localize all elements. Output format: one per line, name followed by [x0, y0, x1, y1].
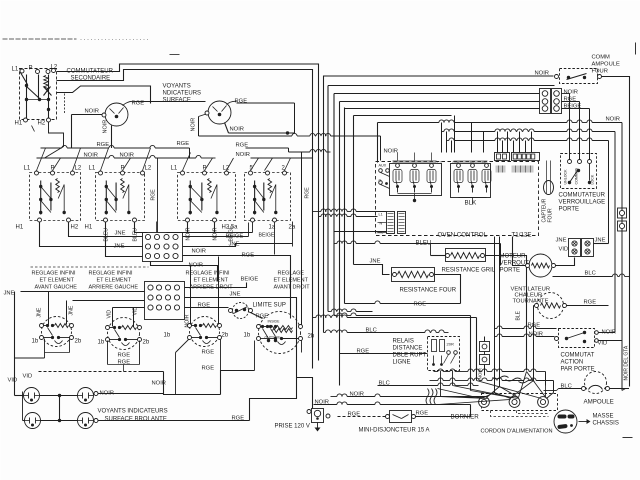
svg-text:H1: H1 — [85, 225, 93, 231]
wire s2 feeds — [113, 308, 145, 327]
svg-text:ARRIERE GAUCHE: ARRIERE GAUCHE — [89, 285, 139, 291]
svg-text:VID: VID — [23, 374, 33, 380]
svg-text:JNE: JNE — [114, 244, 125, 250]
label resistance four — [400, 288, 457, 294]
svg-text:BEIGE: BEIGE — [241, 277, 259, 283]
label noir lamp1 — [85, 109, 100, 115]
wire h380 right — [430, 378, 554, 393]
wire h315 — [334, 313, 471, 316]
svg-text:JNE: JNE — [595, 238, 606, 244]
wire hot lamp row2 — [23, 419, 250, 423]
svg-text:BLEU: BLEU — [104, 228, 110, 242]
wire gril left — [431, 244, 446, 256]
svg-text:NOIR: NOIR — [103, 120, 109, 134]
label ventilateur — [511, 287, 551, 305]
label noir rot s3 — [185, 314, 191, 327]
limit switch limite sup — [229, 303, 253, 319]
wire s3 bottom stub — [176, 339, 221, 395]
svg-text:RGE: RGE — [305, 187, 311, 199]
svg-text:VOYANTS: VOYANTS — [163, 84, 191, 90]
label jne left edge — [4, 291, 15, 297]
wire connB left mid — [73, 300, 145, 302]
svg-text:COMMUTATEUR: COMMUTATEUR — [559, 193, 606, 199]
label noir h396 — [350, 392, 365, 398]
wire noir oven lamp — [324, 76, 554, 333]
svg-text:CHASSIS: CHASSIS — [593, 421, 619, 427]
wire ampoule to right edge — [602, 77, 630, 387]
tick top right — [635, 43, 637, 55]
wire bus W3 — [57, 86, 151, 104]
wire noir h396 — [331, 394, 488, 397]
connector block noir rge beige — [540, 89, 562, 114]
wire h93 — [334, 93, 540, 95]
capteur four sensor — [542, 161, 554, 223]
label noir rot squares — [478, 367, 483, 379]
wire outlet feed — [297, 378, 313, 409]
label noir rot b3a — [186, 227, 192, 240]
svg-text:AVANT GAUCHE: AVANT GAUCHE — [35, 285, 78, 291]
svg-text:COMM: COMM — [592, 55, 611, 61]
wire bus B1 — [57, 64, 319, 361]
wire vid door right — [599, 340, 623, 342]
svg-text:H2: H2 — [38, 121, 46, 127]
label jne mid — [114, 244, 125, 250]
oven aux contacts — [379, 164, 390, 189]
wire blc h332 — [324, 330, 449, 333]
svg-text:P: P — [51, 166, 55, 172]
label 2b s4 — [308, 334, 315, 340]
wire noir bus — [37, 155, 313, 158]
label rge connB — [198, 303, 211, 309]
bus corner 347 — [344, 108, 346, 304]
label beige connB — [241, 277, 259, 283]
svg-text:2b: 2b — [75, 339, 82, 345]
label rge connA — [242, 253, 255, 259]
svg-text:RGE: RGE — [202, 350, 215, 356]
wire vid dashed — [39, 371, 164, 373]
svg-text:NOIR DEL GTA: NOIR DEL GTA — [624, 345, 630, 380]
wire disj right — [416, 405, 471, 417]
svg-text:RESISTANCE GRIL: RESISTANCE GRIL — [442, 268, 496, 274]
tick bottom right — [623, 437, 633, 439]
svg-text:L2: L2 — [75, 166, 82, 172]
svg-text:VID: VID — [8, 378, 18, 384]
wire rge door — [495, 326, 557, 329]
svg-text:BEIGE: BEIGE — [259, 233, 275, 239]
label oven control — [438, 232, 488, 239]
svg-text:L1: L1 — [379, 213, 383, 217]
wire s1 feeds — [49, 292, 67, 325]
label 2b s2 — [143, 340, 150, 346]
label reglage infini avant gauche — [32, 271, 78, 291]
svg-text:JNE: JNE — [4, 291, 15, 297]
svg-text:AUX: AUX — [379, 164, 387, 168]
svg-text:JNE: JNE — [370, 259, 381, 265]
label noir bus 1 — [84, 153, 99, 159]
resistance four — [392, 268, 435, 282]
svg-text:JNE: JNE — [69, 305, 75, 315]
svg-text:BLC: BLC — [379, 381, 390, 387]
oven relay contacts group 1 — [390, 153, 442, 196]
square connector mid 1 — [480, 337, 490, 352]
connector block A — [143, 233, 183, 262]
wire s4 bottom stub — [255, 341, 302, 371]
wire h1 block1 down — [40, 222, 143, 247]
label rge disj right — [416, 411, 429, 417]
infinite switch 3 arriere droit — [188, 317, 222, 347]
svg-text:TOURNANTE: TOURNANTE — [513, 299, 549, 305]
outlet prise 120v — [307, 409, 330, 432]
wire relay outs — [441, 371, 453, 397]
label 1b s2 — [98, 340, 105, 346]
wire moteur left — [513, 237, 526, 266]
wire noir long h136 — [199, 133, 381, 160]
bus corner 377 — [377, 123, 379, 163]
label rge s2b — [118, 360, 131, 366]
label noir 2 connA — [189, 263, 204, 269]
label vid rot s2b — [133, 307, 139, 316]
wire vert 301 — [301, 152, 303, 326]
svg-text:NDICATEURS: NDICATEURS — [163, 91, 202, 97]
surface switch block 4 avant droit — [245, 166, 296, 231]
svg-text:PORTE: PORTE — [559, 207, 580, 213]
label vid conn — [559, 247, 569, 253]
label bleu rot 1 — [104, 228, 110, 242]
moteur verrou porte — [526, 254, 556, 277]
oven transformer — [377, 212, 406, 235]
label noir bus 3 — [236, 152, 251, 158]
label rge bus 3 — [236, 143, 249, 149]
svg-text:RGE: RGE — [584, 300, 597, 306]
wire block4 drops — [176, 222, 293, 255]
oven relay contacts group 2 — [451, 160, 492, 198]
label noir vid wire — [152, 381, 167, 387]
label jne rot s1a — [37, 307, 43, 317]
label noir rot b3b — [213, 227, 219, 240]
label reglage infini arriere gauche — [89, 271, 139, 291]
hot surface lamp 3 — [25, 413, 41, 429]
wire h370 right — [434, 369, 546, 386]
label jne connB — [230, 292, 241, 298]
label t1/t2e — [512, 232, 532, 239]
svg-text:PRISE 120 V: PRISE 120 V — [275, 424, 310, 430]
svg-text:NOIR: NOIR — [230, 127, 245, 133]
label masse chassis — [593, 414, 619, 427]
label 1b s1 — [32, 339, 39, 345]
label rge bus 2 — [177, 141, 190, 147]
label noir lamp2 bottom — [230, 127, 245, 133]
svg-text:P: P — [203, 166, 207, 172]
wire vent left — [534, 306, 535, 381]
wire h85 — [328, 85, 555, 87]
wire noir door right — [599, 332, 616, 334]
surface switch block 3 arriere droit — [171, 166, 239, 231]
svg-text:LIGNE: LIGNE — [393, 360, 411, 366]
svg-text:REGLAGE INFINI: REGLAGE INFINI — [89, 271, 133, 277]
resistance gril — [446, 249, 486, 262]
svg-text:REGLAGE INFINI: REGLAGE INFINI — [186, 271, 230, 277]
wire h101 — [340, 101, 540, 103]
svg-text:NOIR: NOIR — [384, 149, 399, 155]
wire h311 — [328, 309, 373, 312]
wire plug dashes — [491, 411, 549, 417]
svg-text:MASSE: MASSE — [593, 414, 614, 420]
hot surface lamp 2 — [78, 388, 94, 404]
surface switch block 1 avant gauche — [16, 166, 82, 231]
wire jne connA — [183, 244, 293, 247]
door switch commutat action — [555, 329, 599, 348]
infinite switch 1 avant gauche — [40, 317, 74, 347]
svg-text:NOIR: NOIR — [192, 249, 207, 255]
svg-text:BLC: BLC — [366, 328, 377, 334]
svg-text:UNLOCK: UNLOCK — [564, 169, 568, 185]
label noir rot lamp1 — [103, 120, 109, 134]
label commutat action par porte — [561, 353, 595, 373]
wire vent right rge — [567, 305, 609, 307]
commutateur verrouillage porte switch — [561, 154, 597, 189]
svg-text:NOIR: NOIR — [535, 71, 550, 77]
label rge disj left — [348, 412, 361, 418]
svg-text:INSIDE: INSIDE — [268, 320, 281, 324]
label rge lamp2 — [235, 99, 248, 105]
wire limite to s4 — [251, 313, 263, 319]
square connector right 2 — [618, 221, 627, 231]
label moteur verrou porte — [500, 254, 530, 274]
hot surface lamp 1 — [24, 388, 40, 404]
svg-text:1b: 1b — [98, 340, 105, 346]
label vid door right — [598, 341, 608, 347]
svg-text:RELAIS: RELAIS — [393, 339, 414, 345]
label limite sup — [253, 303, 286, 309]
wire block2 h2 down — [135, 222, 148, 233]
label beige b4 bottom — [259, 233, 275, 239]
wire conn right stub — [594, 243, 609, 245]
label 2b s3 — [222, 333, 229, 339]
label noir oven box — [384, 149, 399, 155]
svg-text:MINI-DISJONCTEUR 15 A: MINI-DISJONCTEUR 15 A — [359, 428, 430, 434]
svg-text:P: P — [121, 166, 125, 172]
wire rge h353 — [340, 353, 428, 355]
ventilateur chaleur tournante — [535, 293, 567, 319]
svg-text:L2: L2 — [145, 166, 152, 172]
svg-text:1b: 1b — [244, 333, 251, 339]
label cordon — [481, 429, 553, 435]
label rge rot mid — [151, 189, 157, 201]
wire drop 569 — [562, 94, 570, 161]
wire block2 h1 down — [106, 222, 143, 257]
infinite switch 4 internals — [261, 320, 293, 343]
label prise 120 v — [275, 424, 310, 430]
svg-text:L1: L1 — [171, 166, 178, 172]
svg-text:2b: 2b — [143, 340, 150, 346]
label noir h404 tail — [315, 400, 330, 406]
wire moteur right — [556, 258, 575, 266]
wire ampoule right — [610, 389, 630, 391]
svg-text:20R: 20R — [447, 342, 454, 347]
svg-text:FOUR: FOUR — [592, 69, 608, 75]
svg-text:SURFACE: SURFACE — [163, 98, 191, 104]
wire resfour right — [435, 275, 461, 304]
svg-text:REGLAGE: REGLAGE — [278, 271, 305, 277]
bornier terminals — [479, 394, 558, 411]
mini disjoncteur 15a — [386, 411, 416, 423]
label reglage infini arriere droit — [186, 271, 234, 291]
wire vert 476 — [476, 318, 478, 381]
svg-text:BEIGE: BEIGE — [564, 104, 582, 110]
wire s2 bottom stub — [108, 341, 140, 372]
svg-text:RGE: RGE — [232, 416, 245, 422]
label bleu — [416, 241, 432, 247]
wire rge h303 — [345, 301, 461, 304]
svg-text:N: N — [380, 222, 383, 226]
svg-text:2b: 2b — [308, 334, 315, 340]
svg-text:COMMUTAT: COMMUTAT — [561, 353, 595, 359]
svg-text:RGE: RGE — [151, 189, 157, 201]
wire left edge vert — [15, 292, 23, 421]
label blc h332 — [366, 328, 377, 334]
wire jne resfour — [354, 265, 390, 275]
label noir — [535, 71, 550, 77]
label beige connA — [226, 234, 244, 240]
wire h317 — [313, 315, 477, 318]
label rge s2a — [118, 353, 131, 359]
svg-text:BORNIER: BORNIER — [451, 414, 480, 421]
svg-text:SURFACE BROLANTE: SURFACE BROLANTE — [105, 417, 167, 423]
surface indicator lamp 1 — [102, 103, 128, 126]
wire under group2 — [459, 198, 487, 205]
label vid dashes — [23, 374, 33, 380]
svg-text:JNE: JNE — [230, 292, 241, 298]
wire vert 470 — [470, 316, 472, 391]
label noir door right — [602, 330, 617, 336]
wire noir door — [495, 334, 555, 337]
label reglage avant droit — [274, 271, 311, 291]
svg-text:NOIR: NOIR — [185, 314, 191, 327]
wire noir connA bottom — [151, 262, 218, 282]
svg-text:JNE: JNE — [115, 231, 126, 237]
infinite switch 2 arriere gauche — [106, 318, 142, 350]
label noir h122 — [606, 117, 621, 123]
label bleu rot 2 — [133, 228, 139, 242]
infinite switch 4 avant droit — [257, 312, 303, 354]
plug cordon alimentation — [554, 410, 577, 433]
svg-text:RGE: RGE — [118, 353, 131, 359]
label noir connA bottom — [192, 249, 207, 255]
svg-text:RGE: RGE — [416, 411, 429, 417]
svg-text:JNE: JNE — [37, 307, 43, 317]
svg-text:NOIR: NOIR — [213, 227, 219, 240]
label bornier — [451, 414, 480, 421]
svg-text:FOUR: FOUR — [548, 208, 554, 223]
label blc h276 — [585, 271, 596, 277]
wire drop 589 — [562, 109, 590, 161]
wire lamp2 top rge — [227, 101, 295, 133]
svg-text:BLK: BLK — [465, 200, 478, 207]
label jne rot s1b — [69, 305, 75, 315]
dashed rule reglage — [31, 266, 149, 268]
label 1b s3 — [164, 333, 171, 339]
square connector mid 2 — [480, 352, 490, 376]
label commutateur verrouillage porte — [559, 193, 606, 213]
wire rge bus — [41, 145, 331, 157]
label rge rot right — [305, 187, 311, 199]
svg-text:ACTION: ACTION — [561, 360, 584, 366]
svg-text:L1: L1 — [24, 166, 31, 172]
svg-text:VID: VID — [107, 310, 113, 319]
label commutateur secondaire — [67, 69, 114, 82]
wire h122 noir — [378, 120, 623, 123]
svg-text:RGE: RGE — [564, 97, 577, 103]
svg-text:RGE: RGE — [97, 142, 110, 148]
wire bus B2 — [57, 70, 313, 369]
wire blc h276 — [553, 274, 630, 277]
relais distance dble rupt ligne — [428, 337, 460, 371]
label rge s3 — [202, 350, 215, 356]
wire lamp1 top rge — [123, 101, 206, 105]
svg-text:NOIR: NOIR — [186, 227, 192, 240]
ampoule lamp — [582, 372, 610, 394]
wire h211 — [313, 209, 387, 212]
svg-text:PAR PORTE: PAR PORTE — [561, 367, 595, 373]
label jne connA — [229, 242, 240, 248]
label vid rot s2a — [107, 310, 113, 319]
wire bleu — [334, 241, 501, 266]
wire h131 — [442, 129, 616, 132]
wire ampoule left — [544, 389, 582, 391]
svg-text:NOIR: NOIR — [85, 109, 100, 115]
wire disj dashed — [338, 416, 386, 418]
label blc h385 — [379, 381, 390, 387]
svg-text:RGE: RGE — [202, 366, 215, 372]
svg-text:ET ELEMENT: ET ELEMENT — [194, 278, 229, 284]
label jne mid2 — [115, 231, 126, 237]
svg-text:DISTANCE: DISTANCE — [393, 346, 423, 352]
wire drop 579 — [562, 102, 580, 161]
svg-text:2b: 2b — [222, 333, 229, 339]
wire vert 64 dashed — [64, 94, 66, 114]
wire h2 block1 down — [69, 222, 143, 237]
connector block B — [145, 282, 185, 320]
label mini disjoncteur — [359, 428, 430, 434]
svg-text:LIMITE SUP: LIMITE SUP — [253, 303, 286, 309]
svg-text:L1: L1 — [12, 67, 19, 73]
svg-text:H2: H2 — [71, 225, 79, 231]
svg-text:AVANT DROIT: AVANT DROIT — [274, 285, 311, 291]
svg-text:BLE: BLE — [516, 310, 522, 320]
wires drop to oven connectors — [442, 116, 532, 153]
wire beige connB — [185, 283, 247, 288]
svg-text:ET ELEMENT: ET ELEMENT — [97, 278, 132, 284]
label rge arc lamp1 — [132, 101, 145, 107]
label vid left — [8, 378, 18, 384]
label rge prise wire — [202, 366, 215, 372]
label ble rot — [516, 310, 522, 320]
wire hot lamp row1 — [15, 392, 164, 398]
svg-text:T1/12E: T1/12E — [512, 232, 532, 239]
svg-text:VERROUILLAGE: VERROUILLAGE — [559, 200, 606, 206]
wire jne connB — [185, 298, 297, 319]
svg-text:RGE: RGE — [357, 349, 370, 355]
label jne resfour — [370, 259, 381, 265]
label relais — [393, 339, 427, 366]
wire lamp1 left — [72, 115, 103, 149]
stub — [442, 102, 452, 116]
svg-text:BLEU: BLEU — [133, 228, 139, 242]
label rge h353 — [357, 349, 370, 355]
label noir rot lamp2 — [191, 118, 197, 132]
wire lamp2 bottom noir — [225, 123, 295, 135]
oven connector strip 1 — [495, 153, 510, 161]
